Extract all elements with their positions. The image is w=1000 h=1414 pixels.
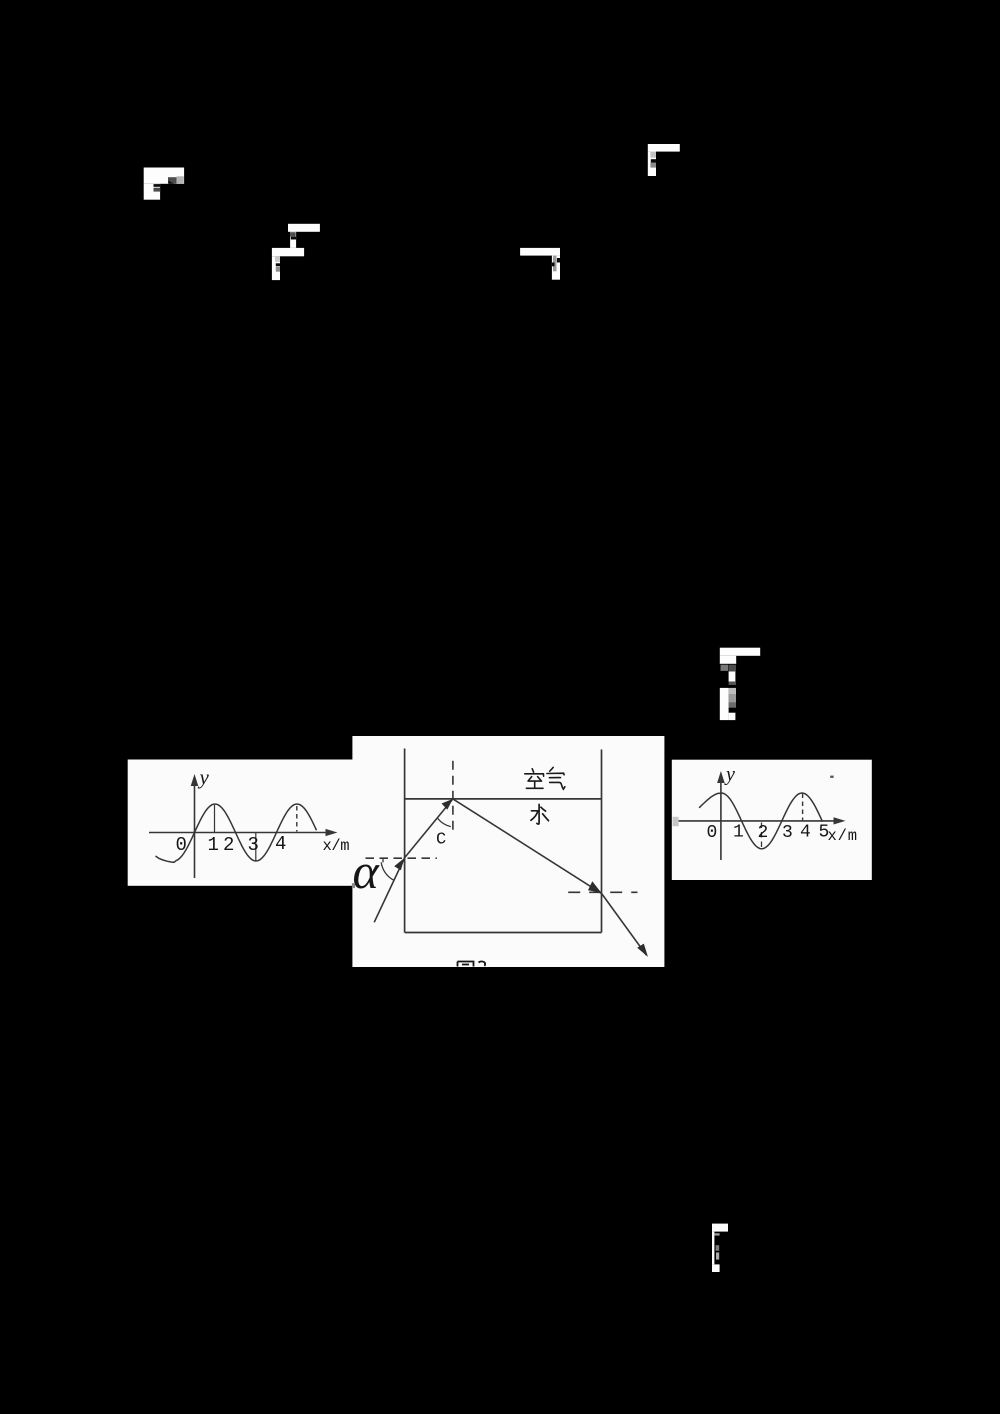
right graph trough tick [761, 823, 763, 850]
svg-text:2: 2 [758, 823, 769, 843]
svg-text:y: y [198, 765, 210, 789]
reflected ray B to D [453, 799, 602, 894]
svg-text:3: 3 [782, 823, 793, 843]
left graph x-axis arrowhead [326, 829, 338, 836]
svg-text:1: 1 [733, 823, 744, 843]
fragment A (equation remnant top-left) [144, 168, 184, 200]
tick at A [382, 858, 384, 862]
left graph y-axis arrowhead [191, 774, 199, 786]
angle C arc [438, 819, 451, 827]
arrowhead at B (refracted) [442, 799, 453, 810]
right graph white box [672, 760, 872, 880]
fragment C (equation remnant, top bar with right descender) [520, 248, 560, 280]
gray dot left of alpha [352, 883, 355, 888]
label 空气 (air) [525, 767, 565, 789]
left graph white box [128, 760, 353, 886]
incident ray [374, 858, 404, 923]
right graph x-axis arrowhead [834, 817, 846, 824]
right graph wave [699, 793, 822, 849]
refracted ray A to B [405, 799, 453, 858]
caption 图3 (partial, clipped by box bottom) [458, 961, 486, 966]
svg-text:0: 0 [176, 834, 187, 856]
vessel bottom [405, 932, 602, 934]
left graph x-axis [149, 832, 332, 834]
fragment F (equation remnant, bottom) [712, 1224, 728, 1272]
fragment D (equation remnant, gamma shape top-right) [648, 144, 680, 176]
svg-text:0: 0 [707, 823, 718, 843]
right graph tiny dot upper right [830, 776, 833, 778]
left graph dashed crest line [296, 806, 298, 832]
left graph wave [156, 804, 317, 862]
arrowhead at exit ray end [637, 944, 648, 957]
vessel left wall [404, 749, 406, 933]
label 水 (water) [531, 804, 549, 824]
right graph gray blob at axis start [673, 817, 679, 826]
right graph y-axis arrowhead [717, 771, 725, 783]
exit ray [602, 893, 647, 955]
arrowhead near D (reflected) [588, 881, 601, 892]
RIGHT GRAPH CONTENT [677, 776, 840, 860]
dashed horizontal at A [366, 857, 437, 859]
middle figure white box [352, 736, 664, 967]
right graph dashed crest line [802, 794, 804, 821]
left graph trough line [255, 833, 257, 861]
dashed horizontal at D [568, 891, 637, 893]
MIDDLE FIGURE CONTENT [366, 749, 647, 956]
svg-text:x/m: x/m [323, 837, 350, 855]
dashed normal at B [452, 761, 454, 832]
svg-text:x/m: x/m [828, 827, 858, 845]
svg-text:2: 2 [223, 834, 234, 856]
water surface line [405, 798, 602, 800]
arrowhead at A (incident) [394, 858, 404, 870]
svg-text:3: 3 [248, 834, 259, 856]
right graph y-axis [720, 776, 722, 860]
fragment B (equation remnant, stair shape) [272, 224, 320, 280]
svg-text:4: 4 [275, 833, 286, 855]
svg-text:y: y [724, 764, 735, 786]
svg-text:4: 4 [800, 823, 811, 843]
right graph x-axis [677, 820, 840, 822]
left graph crest line 1 [214, 805, 216, 833]
LEFT GRAPH CONTENT [149, 779, 332, 878]
left graph y-axis [194, 779, 196, 878]
vessel right wall [601, 750, 603, 933]
svg-text:1: 1 [208, 834, 219, 856]
svg-text:α: α [353, 843, 381, 899]
fragment E (equation remnant, right middle) [720, 648, 760, 720]
svg-text:C: C [436, 831, 446, 850]
svg-text:5: 5 [819, 823, 830, 843]
angle alpha arc [381, 862, 394, 880]
